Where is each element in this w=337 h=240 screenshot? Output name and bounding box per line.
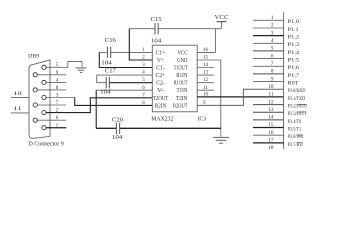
- svg-text:R2IN: R2IN: [155, 103, 167, 109]
- svg-text:D Connector 9: D Connector 9: [29, 141, 64, 147]
- svg-text:6: 6: [271, 53, 274, 59]
- header pin 13 wire: [253, 111, 284, 113]
- svg-text:2: 2: [271, 23, 274, 29]
- svg-text:GND: GND: [177, 58, 188, 64]
- svg-text:7: 7: [271, 61, 274, 67]
- svg-text:R2OUT: R2OUT: [173, 103, 188, 109]
- overline RD: [297, 142, 303, 144]
- wire pin4 C2+ to C17: [97, 74, 153, 76]
- header pin 12 wire: [253, 104, 284, 106]
- svg-text:V-: V-: [157, 88, 164, 94]
- overline INT0: [298, 103, 307, 105]
- capacitor C15 104: [154, 23, 156, 35]
- header pin 3 wire: [253, 35, 284, 37]
- wire net 10 from left edge: [11, 96, 29, 98]
- header pin 5 wire: [253, 50, 284, 52]
- wire GND bottom rail: [96, 127, 116, 129]
- connector DB9 body: [29, 60, 50, 138]
- svg-text:1: 1: [271, 15, 274, 21]
- wire pin3 C1- to C16: [99, 52, 152, 67]
- svg-text:T1IN: T1IN: [177, 88, 188, 94]
- wire DB9 pin5 to ground: [46, 61, 82, 67]
- svg-text:P1.7: P1.7: [288, 73, 300, 79]
- svg-text:14: 14: [268, 115, 274, 121]
- svg-text:17: 17: [268, 138, 274, 144]
- wire net 11 from left edge: [11, 112, 29, 114]
- svg-text:C17: C17: [105, 68, 116, 74]
- wire DB9 pin 6 stub: [37, 119, 66, 121]
- svg-text:15: 15: [268, 122, 274, 128]
- svg-text:T2IN: T2IN: [176, 96, 188, 102]
- svg-text:IC3: IC3: [198, 116, 206, 122]
- wire pin16 VCC: [197, 51, 215, 53]
- svg-text:104: 104: [151, 38, 162, 44]
- capacitor C16 104: [107, 47, 109, 59]
- svg-text:104: 104: [112, 135, 123, 141]
- svg-text:104: 104: [101, 61, 112, 67]
- svg-text:P3.0/RXD: P3.0/RXD: [288, 88, 306, 94]
- wire VCC rail with C15: [129, 28, 155, 30]
- header pin 14 wire: [253, 119, 284, 121]
- svg-text:13: 13: [268, 107, 274, 113]
- header pin 1 wire: [253, 19, 284, 21]
- wire pin14 stub: [197, 67, 214, 69]
- wire DB9 pin2 to MAX232 T2OUT pin 7: [46, 98, 152, 113]
- capacitor C17 104: [105, 77, 107, 89]
- svg-text:9: 9: [271, 76, 274, 82]
- svg-text:P1.5: P1.5: [288, 58, 300, 64]
- wire pin2 V+ from C15 vertical: [129, 29, 152, 60]
- svg-text:P1.2: P1.2: [288, 35, 300, 41]
- header pin 4 wire: [253, 42, 284, 44]
- header pin 2 wire: [253, 27, 284, 29]
- DB9 pin 5 circle: [42, 65, 46, 69]
- svg-text:T2OUT: T2OUT: [153, 96, 169, 102]
- svg-text:3: 3: [271, 30, 274, 36]
- svg-text:MAX232: MAX232: [151, 116, 173, 122]
- svg-text:VCC: VCC: [178, 50, 188, 56]
- svg-text:10: 10: [13, 91, 22, 97]
- svg-text:RST: RST: [288, 81, 300, 87]
- DB9 pin 7 circle: [33, 103, 37, 107]
- svg-text:P3.5/T1: P3.5/T1: [288, 126, 302, 132]
- wire pin10 T2IN to header pin 11: [197, 96, 283, 98]
- svg-text:C2+: C2+: [156, 73, 166, 79]
- wire pin15 GND down to ground: [197, 60, 221, 137]
- svg-text:P3.1/TXD: P3.1/TXD: [288, 96, 306, 102]
- svg-text:P1.6: P1.6: [288, 65, 300, 71]
- wire DB9 pin 8 stub: [37, 89, 66, 91]
- wire pin12 stub: [197, 82, 214, 84]
- overline INT1: [298, 111, 307, 113]
- DB9 pin 4 circle: [42, 80, 46, 84]
- header pin 18 wire: [253, 150, 284, 152]
- svg-text:P1.1: P1.1: [288, 27, 299, 33]
- wire pin5 C2- to C17: [97, 75, 106, 83]
- svg-text:18: 18: [268, 145, 274, 149]
- header pin 17 wire: [253, 142, 284, 144]
- wire pin9 R2OUT to header pin 10: [197, 89, 283, 105]
- svg-text:R1IN: R1IN: [176, 73, 188, 79]
- wire DB9 pin 4 stub: [46, 81, 66, 83]
- svg-text:11: 11: [13, 106, 22, 112]
- svg-text:P1.3: P1.3: [288, 42, 300, 48]
- svg-text:12: 12: [268, 99, 274, 105]
- svg-text:P1.4: P1.4: [288, 50, 300, 56]
- svg-text:104: 104: [100, 90, 111, 96]
- svg-text:VCC: VCC: [215, 15, 229, 21]
- power VCC symbol: [217, 21, 227, 23]
- wire pin11 stub: [197, 89, 214, 91]
- ground symbol near DB9 pin 5: [76, 68, 87, 73]
- svg-text:C2-: C2-: [156, 81, 165, 87]
- wire C16 left stub: [99, 51, 107, 53]
- wire V- down to C20 and GND: [95, 90, 97, 128]
- svg-text:C15: C15: [151, 17, 162, 23]
- header pin 8 wire: [253, 73, 284, 75]
- DB9 pin 9 circle: [33, 73, 37, 77]
- ground symbol right: [213, 137, 229, 143]
- wire pin13 stub: [197, 74, 214, 76]
- svg-text:8: 8: [271, 69, 274, 75]
- wire DB9 pin 7 stub: [37, 104, 66, 106]
- DB9 pin 6 circle: [33, 118, 37, 122]
- svg-text:T1OUT: T1OUT: [174, 66, 188, 72]
- wire DB9 pin 1 stub: [46, 127, 66, 129]
- header pin 6 wire: [253, 58, 284, 60]
- svg-text:C1+: C1+: [156, 50, 166, 56]
- DB9 pin 1 circle: [42, 126, 46, 130]
- DB9 pin 8 circle: [33, 88, 37, 92]
- svg-text:10: 10: [268, 84, 274, 90]
- header connector vertical line: [283, 12, 285, 149]
- svg-text:C16: C16: [105, 38, 116, 44]
- svg-text:11: 11: [269, 92, 274, 98]
- svg-text:DB9: DB9: [28, 54, 39, 60]
- header pin 9 wire: [253, 81, 284, 83]
- svg-text:P3.4/T0: P3.4/T0: [288, 119, 302, 125]
- svg-text:V+: V+: [157, 58, 164, 64]
- wire pin1 C1+ to C16: [111, 51, 152, 53]
- header pin 7 wire: [253, 65, 284, 67]
- overline WR: [297, 134, 303, 136]
- svg-text:C1-: C1-: [156, 66, 165, 72]
- wire DB9 pin3 to MAX232 R2IN pin 8: [46, 97, 75, 99]
- svg-text:16: 16: [268, 130, 274, 136]
- DB9 pin 2 circle: [42, 111, 46, 115]
- svg-text:C20: C20: [112, 117, 123, 123]
- wire pin6 V-: [96, 89, 152, 91]
- svg-text:R1OUT: R1OUT: [174, 81, 188, 87]
- svg-text:P1.0: P1.0: [288, 19, 300, 25]
- svg-text:5: 5: [271, 46, 274, 52]
- wire pin16 vertical to VCC rail: [215, 29, 217, 53]
- wire DB9 pin 9 stub: [37, 74, 66, 76]
- DB9 pin 3 circle: [42, 95, 46, 99]
- header pin 15 wire: [253, 127, 284, 129]
- svg-text:4: 4: [271, 38, 274, 44]
- IC MAX232 IC3 body: [152, 45, 197, 112]
- header pin 16 wire: [253, 134, 284, 136]
- capacitor C20 104: [115, 123, 117, 135]
